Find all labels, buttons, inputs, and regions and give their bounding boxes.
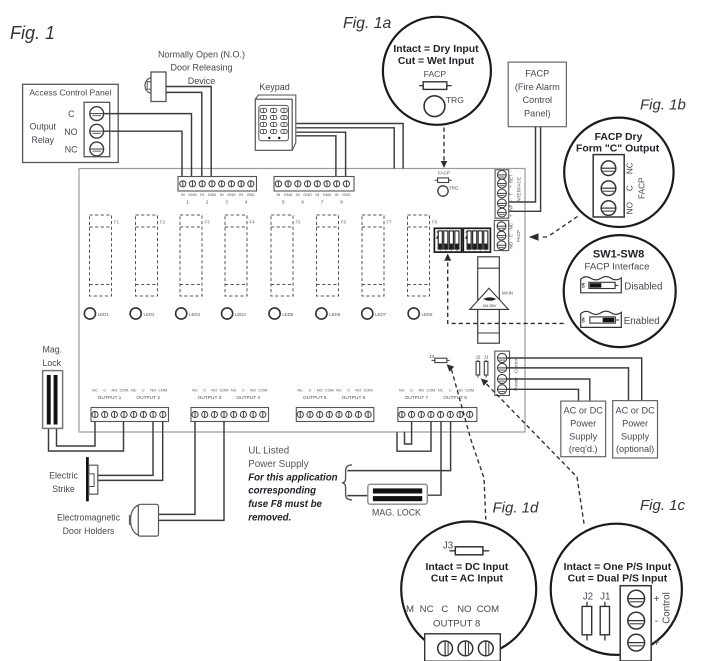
svg-text:Door Holders: Door Holders: [63, 526, 115, 536]
wire door holders to output 3 NC: [159, 422, 196, 515]
SW1-SW8 callout circle: [564, 235, 676, 347]
fuse F6: [317, 215, 347, 296]
TRG terminal on board: [438, 186, 459, 197]
svg-text:Intact = One P/S Input: Intact = One P/S Input: [564, 562, 672, 573]
AC or DC power supply (required) box: [561, 401, 606, 457]
svg-text:Fig. 1: Fig. 1: [10, 23, 55, 43]
svg-text:J1: J1: [600, 592, 610, 603]
wire FACP panel to interface terminal 2: [507, 127, 541, 212]
svg-text:COM: COM: [220, 388, 229, 392]
svg-text:F2: F2: [160, 220, 166, 225]
svg-text:Power Supply: Power Supply: [248, 459, 309, 470]
FACP (Fire Alarm Control Panel) box: [508, 62, 566, 127]
output terminal strip OUTPUT 7-8: [398, 388, 477, 421]
svg-text:COM: COM: [158, 388, 167, 392]
wire power + to required supply: [507, 379, 590, 401]
svg-text:INTERFACE: INTERFACE: [517, 177, 522, 203]
svg-text:RET: RET: [509, 174, 514, 183]
svg-text:Disabled: Disabled: [624, 281, 662, 292]
wire keypad line 2: [297, 128, 395, 169]
svg-text:FACP: FACP: [438, 171, 450, 176]
dashed arrow J3 to Fig 1d: [452, 370, 486, 520]
svg-text:NC: NC: [420, 604, 434, 615]
svg-text:corresponding: corresponding: [248, 486, 316, 497]
svg-text:F3: F3: [205, 220, 211, 225]
svg-text:Form "C" Output: Form "C" Output: [576, 143, 660, 154]
svg-text:NO: NO: [150, 388, 156, 392]
svg-text:COM: COM: [465, 388, 474, 392]
svg-text:LED4: LED4: [235, 312, 247, 317]
fuse F8: [408, 215, 438, 296]
svg-text:F1: F1: [114, 220, 120, 225]
svg-text:FACP: FACP: [516, 230, 521, 242]
svg-text:OUTPUT 2: OUTPUT 2: [136, 395, 160, 401]
OUTPUT 8 silkscreen in Fig 1d: [406, 604, 499, 630]
svg-text:Mag.: Mag.: [43, 345, 63, 355]
input terminal strip 5-8: [274, 177, 354, 205]
svg-text:Cut = Dual P/S Input: Cut = Dual P/S Input: [568, 573, 668, 584]
svg-text:Cut = AC Input: Cut = AC Input: [431, 573, 504, 584]
relay screw C: [90, 107, 104, 121]
svg-text:Control: Control: [514, 358, 520, 373]
svg-text:OUTPUT 5: OUTPUT 5: [303, 395, 327, 401]
svg-text:LED3: LED3: [189, 312, 201, 317]
svg-text:Enabled: Enabled: [624, 316, 660, 327]
access control panel box: [23, 84, 119, 162]
svg-text:F4: F4: [250, 220, 256, 225]
svg-text:NO: NO: [356, 388, 362, 392]
svg-text:OUTPUT 3: OUTPUT 3: [198, 395, 222, 401]
svg-text:fuse F8 must be: fuse F8 must be: [248, 499, 322, 510]
svg-text:Normally Open (N.O.): Normally Open (N.O.): [158, 50, 245, 60]
svg-text:C: C: [449, 388, 452, 392]
svg-text:NC: NC: [509, 222, 514, 229]
svg-text:Power: Power: [622, 419, 648, 429]
svg-text:COM: COM: [477, 604, 499, 615]
svg-text:NO: NO: [509, 241, 514, 248]
FACP fuse symbol in Fig 1a: [419, 82, 452, 90]
output terminal strip OUTPUT 5-6: [296, 388, 374, 421]
svg-text:Fig. 1d: Fig. 1d: [493, 500, 540, 517]
LED2: [130, 308, 155, 319]
electromagnetic door holder device: [57, 504, 159, 536]
svg-text:Fig. 1c: Fig. 1c: [640, 497, 686, 514]
fuse F4: [225, 215, 255, 296]
power input terminal block: [495, 351, 520, 395]
svg-text:FACP Dry: FACP Dry: [595, 132, 643, 143]
svg-text:(optional): (optional): [616, 444, 654, 454]
svg-text:GND: GND: [303, 193, 312, 197]
svg-text:LED2: LED2: [144, 312, 156, 317]
svg-text:NC: NC: [438, 388, 444, 392]
svg-text:C: C: [626, 185, 635, 191]
svg-text:F8: F8: [432, 220, 438, 225]
wire door releasing device to input 2 IN: [166, 92, 202, 176]
keypad dots: [268, 137, 270, 139]
svg-text:COM: COM: [258, 388, 267, 392]
svg-text:UL Listed: UL Listed: [248, 446, 289, 457]
jumper J2 in Fig 1c: [582, 602, 592, 641]
svg-text:For this application: For this application: [248, 472, 337, 483]
LED5: [269, 308, 294, 319]
wire access panel relay C to input 1 GND: [103, 114, 191, 177]
wire mag lock to output 1 NC: [57, 422, 96, 447]
svg-text:C: C: [410, 388, 413, 392]
svg-text:IN: IN: [200, 193, 204, 197]
svg-text:2: 2: [206, 200, 209, 205]
jumper J1 in Fig 1c: [600, 602, 609, 641]
wire output 8 C to power supply brace: [347, 422, 450, 471]
svg-text:NC: NC: [399, 388, 405, 392]
svg-text:NO: NO: [112, 388, 118, 392]
svg-text:COM: COM: [426, 388, 435, 392]
LED3: [176, 308, 201, 319]
fuse F2: [136, 215, 166, 296]
svg-text:F5: F5: [296, 220, 302, 225]
wire electric strike to output 2 NO: [98, 422, 153, 476]
svg-text:MAIN: MAIN: [502, 290, 513, 295]
svg-text:ON: ON: [581, 317, 585, 323]
svg-text:AC or DC: AC or DC: [615, 406, 655, 416]
relay screw NO: [90, 124, 104, 138]
svg-text:GND: GND: [188, 193, 197, 197]
svg-text:Device: Device: [188, 76, 216, 86]
svg-text:M: M: [406, 604, 414, 615]
svg-text:LED5: LED5: [282, 312, 294, 317]
svg-text:5: 5: [282, 200, 285, 205]
dashed arrow J2 J1 to Fig 1c: [487, 384, 585, 526]
svg-text:Relay: Relay: [32, 135, 55, 145]
LED8: [408, 308, 433, 319]
Fig 1d callout circle: [401, 522, 536, 657]
svg-text:Output: Output: [30, 122, 57, 132]
svg-text:MAG. LOCK: MAG. LOCK: [372, 508, 421, 518]
wire door releasing device to input 2 GND: [166, 87, 211, 177]
UL listed power supply note: [248, 446, 337, 524]
svg-text:FACP: FACP: [525, 69, 549, 79]
svg-text:IN: IN: [276, 193, 280, 197]
svg-text:COM: COM: [120, 388, 129, 392]
wire access panel relay NO to input 1 IN: [103, 131, 182, 176]
wire loop output 7 C: [405, 422, 412, 445]
svg-text:OUTPUT 1: OUTPUT 1: [98, 395, 122, 401]
wire keypad to input 8 GND: [297, 132, 346, 176]
wire keypad line 1: [297, 124, 404, 169]
svg-text:IN: IN: [315, 193, 319, 197]
svg-text:GND: GND: [284, 193, 293, 197]
svg-text:Power: Power: [570, 419, 596, 429]
svg-text:Electromagnetic: Electromagnetic: [57, 513, 121, 523]
svg-text:C: C: [103, 388, 106, 392]
svg-text:-: -: [655, 616, 658, 627]
svg-text:OUTPUT 4: OUTPUT 4: [236, 395, 260, 401]
dashed arrow Fig 1b to FACP block: [540, 217, 578, 238]
svg-text:LED8: LED8: [422, 312, 434, 317]
jumper J2 on board: [475, 355, 480, 378]
svg-text:NO: NO: [317, 388, 323, 392]
svg-text:LED6: LED6: [329, 312, 341, 317]
LED4: [222, 308, 247, 319]
output terminal strip OUTPUT 1-2: [91, 388, 169, 421]
svg-text:NC: NC: [192, 388, 198, 392]
wire electric strike to output 2 COM: [98, 422, 163, 481]
svg-text:C: C: [68, 109, 75, 119]
svg-text:F7: F7: [387, 220, 393, 225]
svg-text:NC: NC: [231, 388, 237, 392]
door releasing device icon: [145, 78, 158, 93]
svg-text:Cut = Wet Input: Cut = Wet Input: [398, 56, 475, 67]
svg-text:NO: NO: [212, 388, 218, 392]
fuse F5: [271, 215, 301, 296]
svg-text:SW1-SW8: SW1-SW8: [593, 248, 644, 260]
wire power + to optional supply: [507, 358, 642, 401]
svg-text:Lock: Lock: [43, 358, 62, 368]
svg-text:Supply: Supply: [569, 431, 597, 441]
svg-text:LED7: LED7: [375, 312, 387, 317]
MAIN fuse triangle symbol 10A 250V: [470, 288, 513, 309]
svg-text:COM: COM: [325, 388, 334, 392]
svg-text:TRG: TRG: [446, 95, 464, 105]
svg-text:C: C: [142, 388, 145, 392]
wire power - to optional supply: [507, 368, 629, 401]
wire mag lock to output 1 COM: [49, 422, 124, 452]
Fig 1b callout circle: [564, 118, 673, 227]
Fig 1a callout circle: [383, 17, 491, 125]
svg-text:Keypad: Keypad: [259, 82, 290, 92]
fuse F3: [180, 215, 210, 296]
svg-text:GND: GND: [227, 193, 236, 197]
svg-text:GND: GND: [342, 193, 351, 197]
svg-text:NC: NC: [131, 388, 137, 392]
svg-text:NO: NO: [64, 127, 77, 137]
DIP switch block 1 (SW1-SW4): [434, 228, 461, 252]
svg-text:F6: F6: [341, 220, 347, 225]
svg-text:NC: NC: [298, 388, 304, 392]
svg-text:C: C: [242, 388, 245, 392]
AC or DC power supply (optional) box: [613, 401, 658, 458]
svg-text:NC: NC: [92, 388, 98, 392]
Fig 1c callout circle: [551, 524, 682, 655]
svg-text:TRG: TRG: [449, 186, 459, 191]
DIP switch enabled graphic: [581, 311, 660, 327]
svg-text:GND: GND: [247, 193, 256, 197]
svg-text:(Fire Alarm: (Fire Alarm: [515, 82, 560, 92]
svg-text:1: 1: [186, 200, 189, 205]
wire door holders to output 3 COM: [159, 422, 225, 521]
main board outline: [79, 169, 525, 433]
fuse F1: [90, 215, 120, 296]
svg-text:OUTPUT 8: OUTPUT 8: [433, 619, 480, 630]
svg-text:4: 4: [245, 200, 248, 205]
dashed arrow Fig 1a to FACP fuse: [443, 128, 445, 161]
OUTPUT 8 terminal strip in Fig 1d: [425, 634, 501, 661]
svg-text:Strike: Strike: [52, 484, 75, 494]
svg-text:OUTPUT 7: OUTPUT 7: [405, 395, 429, 401]
svg-text:Fig. 1a: Fig. 1a: [343, 15, 392, 32]
keypad icon: [255, 95, 295, 150]
svg-text:Electric: Electric: [49, 471, 78, 481]
wire power supply brace to mag lock: [347, 495, 368, 497]
svg-text:+: +: [654, 638, 660, 649]
svg-text:COM: COM: [364, 388, 373, 392]
svg-text:Door Releasing: Door Releasing: [170, 63, 232, 73]
wire power - to required supply: [507, 389, 579, 401]
wire FACP panel to interface terminal: [507, 127, 536, 202]
FACP interface terminal block: [495, 170, 521, 218]
svg-text:NO: NO: [626, 202, 635, 214]
svg-text:Fig. 1b: Fig. 1b: [640, 97, 686, 114]
svg-text:C: C: [203, 388, 206, 392]
relay screw NC: [90, 142, 104, 156]
svg-text:AC or DC: AC or DC: [564, 406, 604, 416]
svg-text:NO: NO: [418, 388, 424, 392]
wire keypad to input 8 IN: [297, 136, 336, 177]
output terminal strip OUTPUT 3-4: [191, 388, 269, 421]
electric strike device: [49, 457, 98, 501]
LED7: [362, 308, 387, 319]
svg-text:Intact = Dry Input: Intact = Dry Input: [393, 44, 479, 55]
svg-text:NC: NC: [336, 388, 342, 392]
control terminal block in Fig 1c: [620, 586, 672, 661]
svg-text:IN: IN: [220, 193, 224, 197]
svg-text:Access Control Panel: Access Control Panel: [29, 88, 111, 98]
svg-text:Control: Control: [662, 592, 673, 624]
DIP switch block 2 (SW5-SW8): [463, 228, 490, 252]
mag lock device (left): [43, 345, 63, 429]
svg-text:GND: GND: [208, 193, 217, 197]
svg-text:10A 250V: 10A 250V: [483, 304, 498, 308]
FACP dry form C terminal block on board: [494, 220, 521, 250]
DIP switch disabled graphic: [581, 277, 663, 293]
svg-text:OUTPUT 6: OUTPUT 6: [342, 395, 366, 401]
fuse link J3 on board: [429, 354, 450, 363]
wire output 8 NC to mag lock: [427, 422, 441, 496]
MAIN fuse holder column: [478, 257, 500, 343]
svg-text:Panel): Panel): [524, 108, 551, 118]
svg-text:NC: NC: [65, 145, 78, 155]
svg-text:C: C: [347, 388, 350, 392]
svg-text:C: C: [309, 388, 312, 392]
svg-text:FACP: FACP: [424, 69, 447, 79]
svg-text:C: C: [441, 604, 448, 615]
keypad keys: [260, 108, 287, 133]
svg-text:IN: IN: [239, 193, 243, 197]
svg-text:T: T: [509, 192, 514, 195]
TRG circle in Fig 1a: [424, 95, 464, 117]
dashed arrow SW circle to DIP switches: [448, 263, 564, 324]
FACP dry form C terminal block in Fig 1b: [593, 155, 646, 217]
svg-text:3: 3: [225, 200, 228, 205]
svg-text:ON: ON: [581, 282, 585, 288]
svg-text:GND: GND: [323, 193, 332, 197]
svg-text:IN: IN: [335, 193, 339, 197]
jumper J1 on board: [484, 355, 489, 378]
svg-text:Control: Control: [522, 95, 552, 105]
svg-text:INP: INP: [509, 205, 514, 212]
svg-text:IN: IN: [296, 193, 300, 197]
svg-text:IN: IN: [181, 193, 185, 197]
svg-text:J2: J2: [583, 592, 593, 603]
svg-text:J3: J3: [429, 354, 434, 360]
svg-text:+: +: [654, 594, 660, 605]
svg-text:Supply: Supply: [621, 431, 649, 441]
svg-text:NC: NC: [626, 162, 635, 174]
svg-text:NO: NO: [250, 388, 256, 392]
FACP trigger fuse on board: [435, 171, 452, 183]
svg-text:8: 8: [340, 200, 343, 205]
svg-text:NO: NO: [457, 604, 471, 615]
svg-text:FACP: FACP: [637, 177, 646, 199]
access panel relay terminal block: [84, 102, 110, 156]
svg-text:FACP Interface: FACP Interface: [585, 262, 650, 273]
LED1: [84, 308, 109, 319]
svg-text:LED1: LED1: [98, 312, 110, 317]
svg-text:Intact = DC Input: Intact = DC Input: [425, 562, 508, 573]
input terminal strip 1-4: [178, 177, 257, 205]
svg-text:7: 7: [321, 200, 324, 205]
wire loop output 7 COM: [397, 422, 431, 452]
brace for power supply wires: [342, 465, 352, 500]
LED6: [316, 308, 341, 319]
J3 fuse symbol in Fig 1d: [449, 547, 489, 555]
svg-text:6: 6: [301, 200, 304, 205]
svg-text:(req'd.): (req'd.): [569, 444, 598, 454]
svg-text:J3: J3: [443, 541, 454, 552]
mag lock (bottom): [368, 484, 428, 517]
fuse F7: [362, 215, 392, 296]
svg-text:OUTPUT 8: OUTPUT 8: [443, 395, 467, 401]
svg-text:removed.: removed.: [248, 513, 291, 524]
